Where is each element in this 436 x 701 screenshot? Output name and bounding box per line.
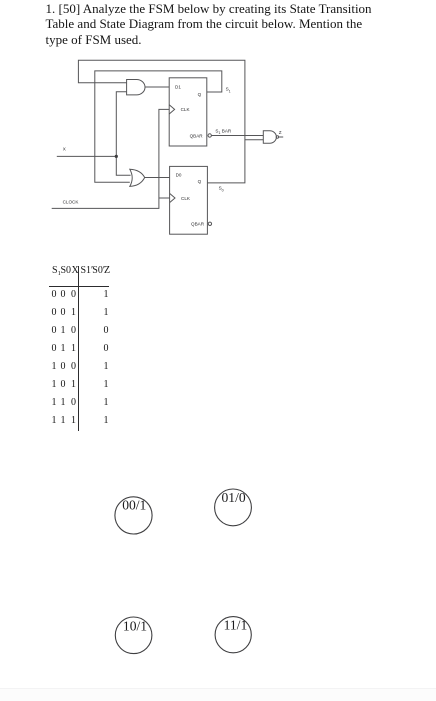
OR gate G2 xyxy=(130,169,145,186)
table row 001 xyxy=(52,307,57,318)
svg-text:0: 0 xyxy=(222,188,224,192)
G3 output bubble xyxy=(276,136,278,138)
wire: junction down to G2 upper input xyxy=(116,156,130,175)
table row 011 xyxy=(52,343,57,354)
wire: CLOCK line and distribution xyxy=(52,109,170,208)
svg-text:11/1: 11/1 xyxy=(224,618,248,633)
svg-text:QBAR: QBAR xyxy=(190,133,204,138)
svg-text:D0: D0 xyxy=(176,173,182,178)
wire: junction up to G1 lower input xyxy=(116,92,126,157)
state transition table xyxy=(0,0,436,1)
svg-text:CLOCK: CLOCK xyxy=(63,200,80,205)
U1 CLK edge-triangle xyxy=(169,105,174,114)
U0 QBAR bubble xyxy=(208,222,211,225)
table row 000 xyxy=(52,289,57,300)
svg-text:10/1: 10/1 xyxy=(123,618,147,633)
wire: G3 output to Z xyxy=(279,136,284,138)
state circle 00 xyxy=(115,497,152,534)
svg-text:00/1: 00/1 xyxy=(122,498,146,513)
U0 CLK edge-triangle xyxy=(170,193,175,202)
wire: S1 feedback loop (U1.Q right, up, across, down to G2 lower input) xyxy=(95,71,222,182)
svg-text:01/0: 01/0 xyxy=(222,490,246,505)
state circle 10 xyxy=(115,617,152,654)
wire: S0 feedback loop (U0.Q right, up, across top, down to G1 top input) xyxy=(78,60,245,183)
table row 010 xyxy=(52,325,57,336)
wire: tap from S0 vertical to G3 lower input xyxy=(245,139,263,141)
U1 QBAR bubble xyxy=(208,134,211,137)
D flip-flop U0 (bottom) body xyxy=(170,166,208,234)
AND gate G1 xyxy=(127,80,145,95)
circuit schematic SVG xyxy=(0,0,436,260)
wire: G2 output to U0.D0 xyxy=(145,177,170,179)
table header S1 S0 X | S1' S0' Z xyxy=(52,265,61,276)
svg-text:X: X xyxy=(63,146,66,151)
svg-text:1: 1 xyxy=(219,131,221,135)
junction dot on X net xyxy=(115,155,118,158)
table column divider xyxy=(78,266,79,432)
state circle 01 xyxy=(215,489,252,526)
svg-text:CLK: CLK xyxy=(181,107,191,112)
NAND gate G3 (output) xyxy=(263,131,276,143)
table header underline xyxy=(49,286,109,287)
table row 110 xyxy=(52,397,57,408)
wire: X input to junction xyxy=(57,155,117,157)
wire: clock branch to U0 CLK xyxy=(159,197,170,199)
svg-text:1: 1 xyxy=(229,89,231,93)
state circle 11 xyxy=(215,617,251,653)
state diagram SVG xyxy=(0,460,436,688)
svg-text:BAR: BAR xyxy=(222,128,232,133)
svg-text:QBAR: QBAR xyxy=(191,222,205,227)
svg-text:D1: D1 xyxy=(175,85,181,90)
svg-text:Z: Z xyxy=(279,130,282,135)
D flip-flop U1 (top) body xyxy=(169,78,207,146)
svg-text:CLK: CLK xyxy=(181,196,191,201)
wire: G1 output to U1.D1 xyxy=(145,86,169,88)
table row 100 xyxy=(52,361,57,372)
svg-text:Q: Q xyxy=(198,179,202,184)
table row 101 xyxy=(52,379,57,390)
svg-text:Q: Q xyxy=(198,92,202,97)
faint page-bottom strip xyxy=(0,688,436,701)
wire: S1 BAR from U1 QBAR bubble to G3 upper input xyxy=(211,135,263,137)
question paragraph xyxy=(46,1,426,48)
table row 111 xyxy=(52,415,57,426)
